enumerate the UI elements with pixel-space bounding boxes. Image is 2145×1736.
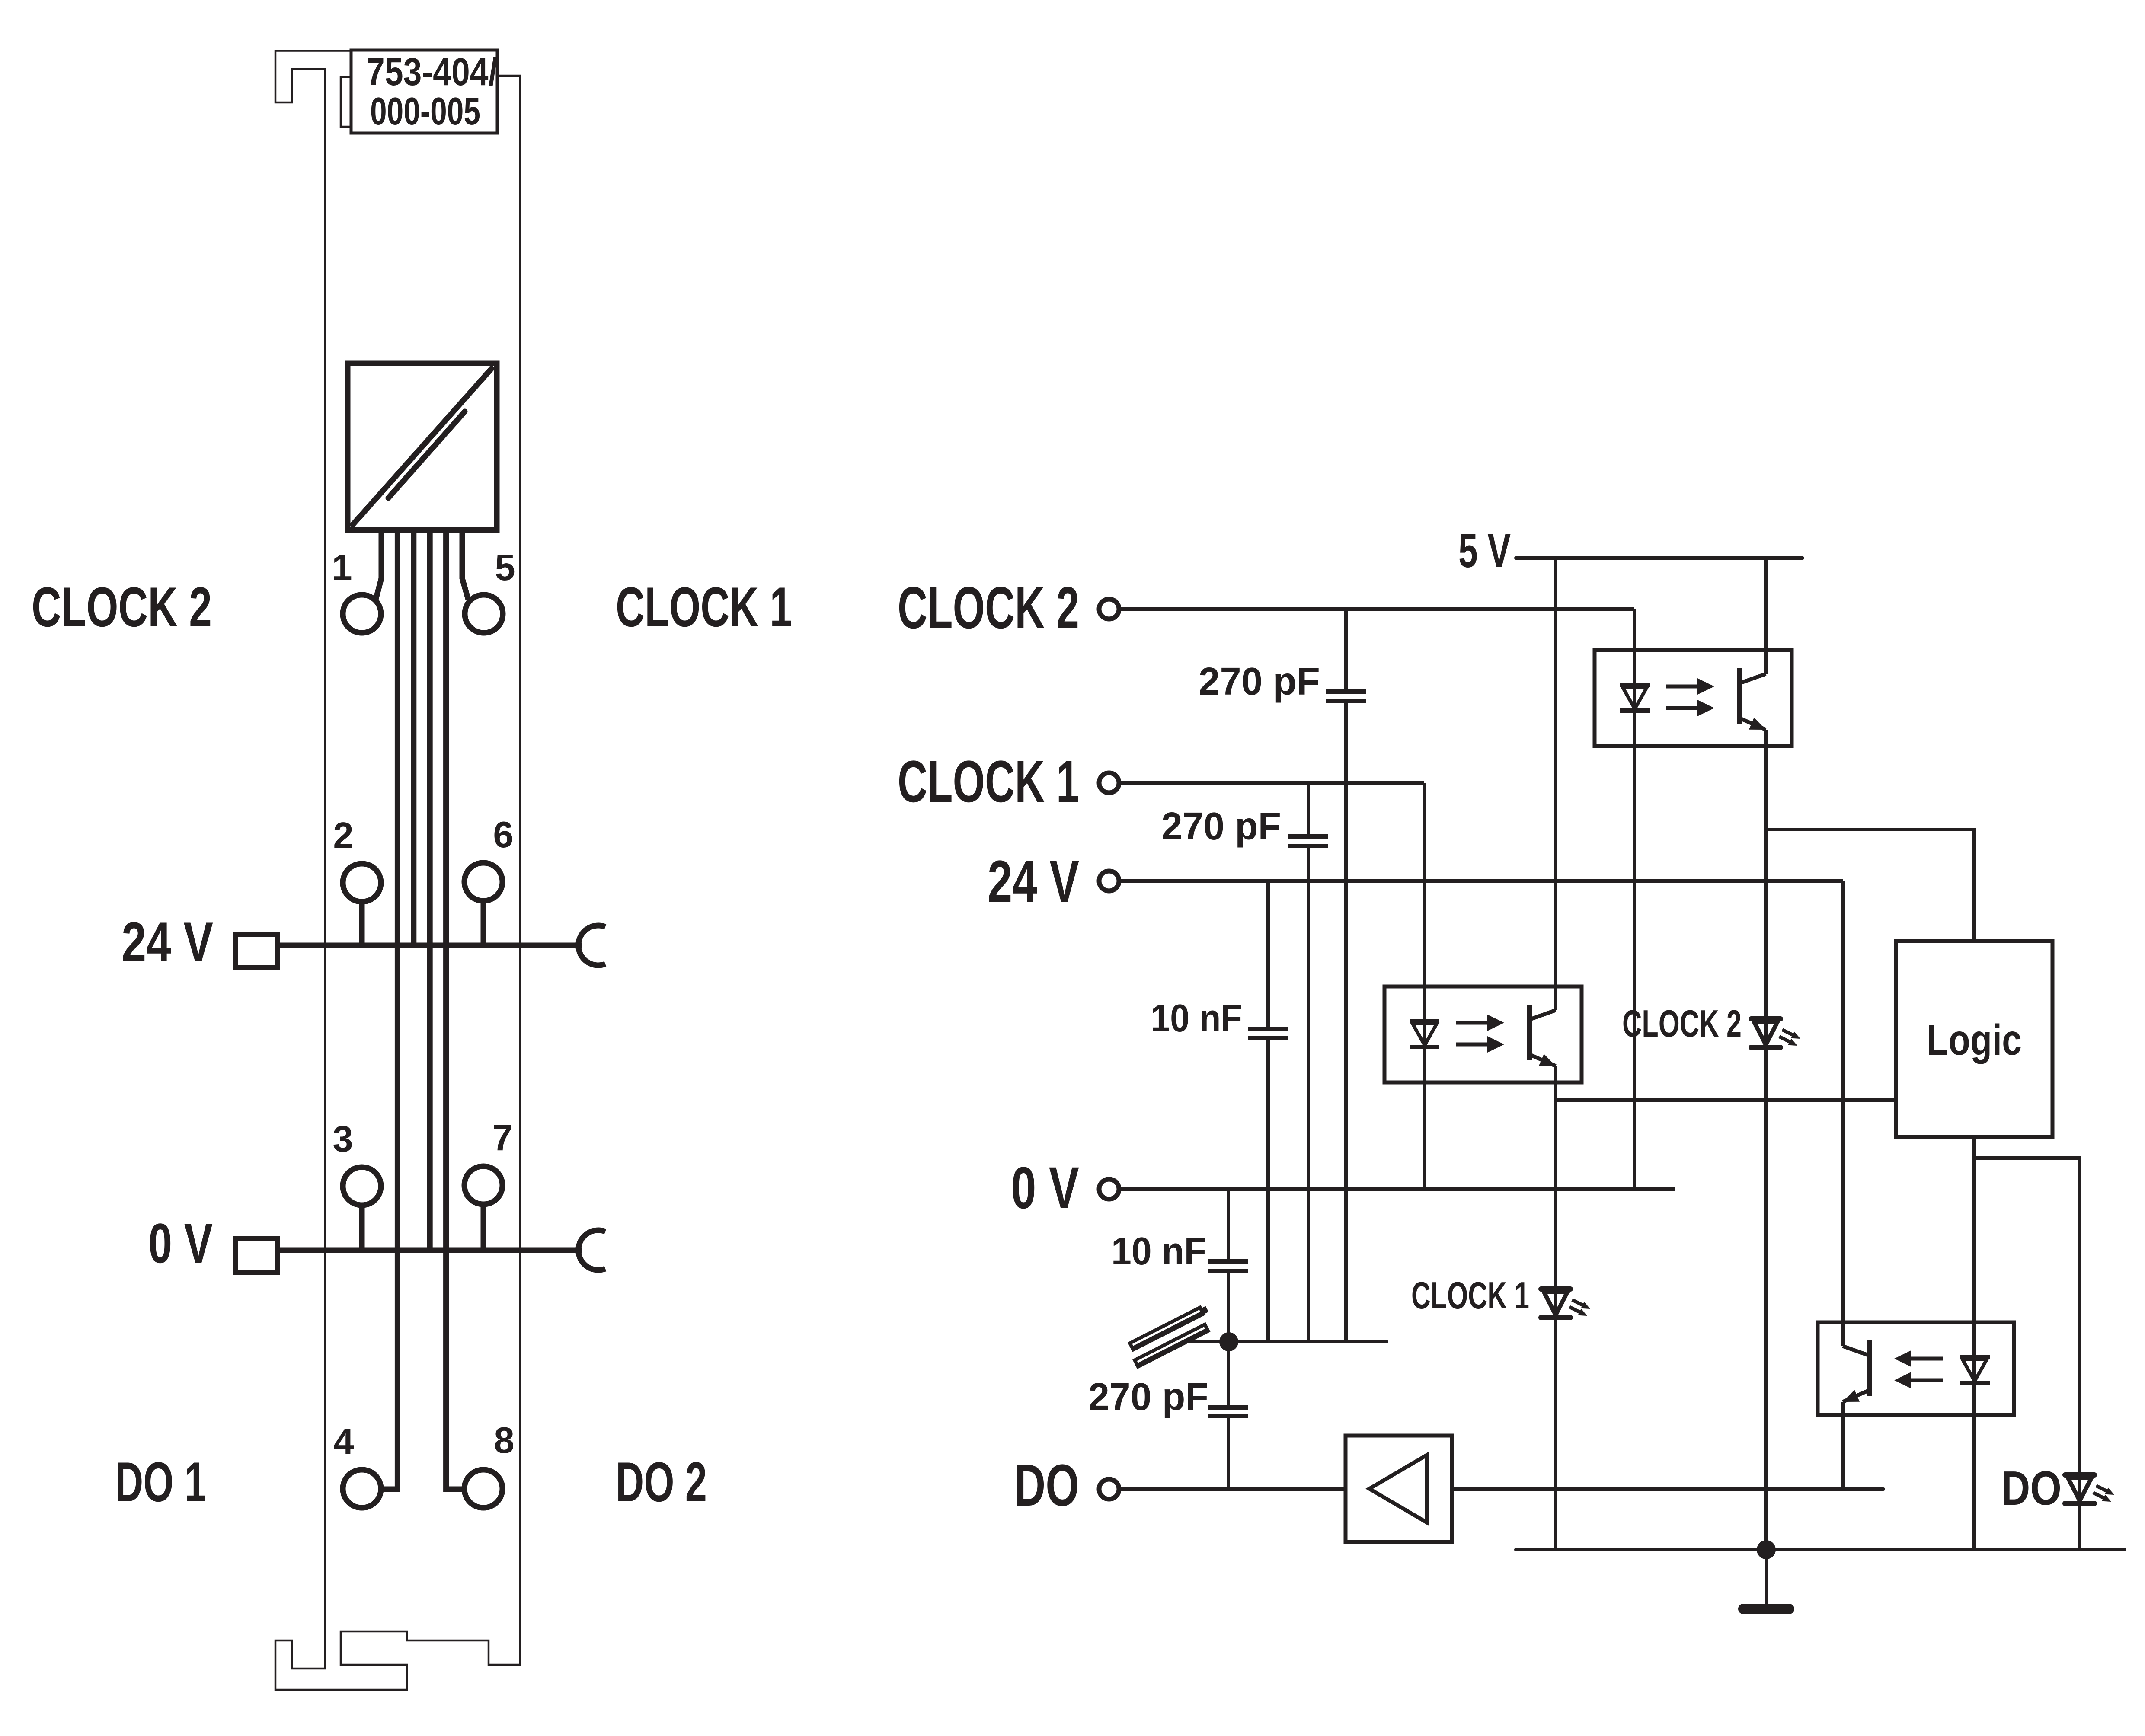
svg-text:2: 2 (333, 815, 353, 856)
svg-text:DO 2: DO 2 (616, 1450, 707, 1513)
svg-text:0 V: 0 V (148, 1212, 213, 1275)
svg-text:6: 6 (493, 814, 513, 855)
svg-text:CLOCK 2: CLOCK 2 (898, 575, 1079, 641)
svg-text:270 pF: 270 pF (1088, 1375, 1208, 1419)
svg-text:CLOCK 2: CLOCK 2 (32, 575, 212, 638)
svg-text:270 pF: 270 pF (1161, 805, 1281, 848)
svg-text:5: 5 (495, 547, 515, 588)
svg-text:8: 8 (494, 1420, 514, 1461)
svg-text:CLOCK 1: CLOCK 1 (1411, 1274, 1529, 1317)
svg-text:CLOCK 1: CLOCK 1 (898, 749, 1079, 815)
svg-text:3: 3 (332, 1119, 353, 1160)
svg-text:10 nF: 10 nF (1151, 997, 1242, 1040)
svg-text:000-005: 000-005 (370, 90, 480, 133)
svg-text:270 pF: 270 pF (1199, 660, 1320, 703)
svg-text:24 V: 24 V (988, 849, 1079, 915)
svg-text:Logic: Logic (1927, 1016, 2022, 1064)
svg-text:DO: DO (1014, 1452, 1079, 1519)
svg-text:DO: DO (2001, 1462, 2062, 1515)
svg-text:7: 7 (492, 1117, 512, 1158)
svg-text:24 V: 24 V (121, 910, 213, 973)
svg-text:4: 4 (333, 1421, 354, 1462)
svg-text:DO 1: DO 1 (115, 1450, 206, 1513)
svg-text:CLOCK 1: CLOCK 1 (616, 575, 792, 638)
svg-text:1: 1 (332, 547, 352, 588)
svg-text:5 V: 5 V (1458, 524, 1511, 578)
svg-text:CLOCK 2: CLOCK 2 (1622, 1002, 1742, 1045)
svg-text:0 V: 0 V (1011, 1155, 1079, 1221)
svg-text:753-404/: 753-404/ (366, 51, 498, 94)
svg-text:10 nF: 10 nF (1111, 1230, 1206, 1273)
